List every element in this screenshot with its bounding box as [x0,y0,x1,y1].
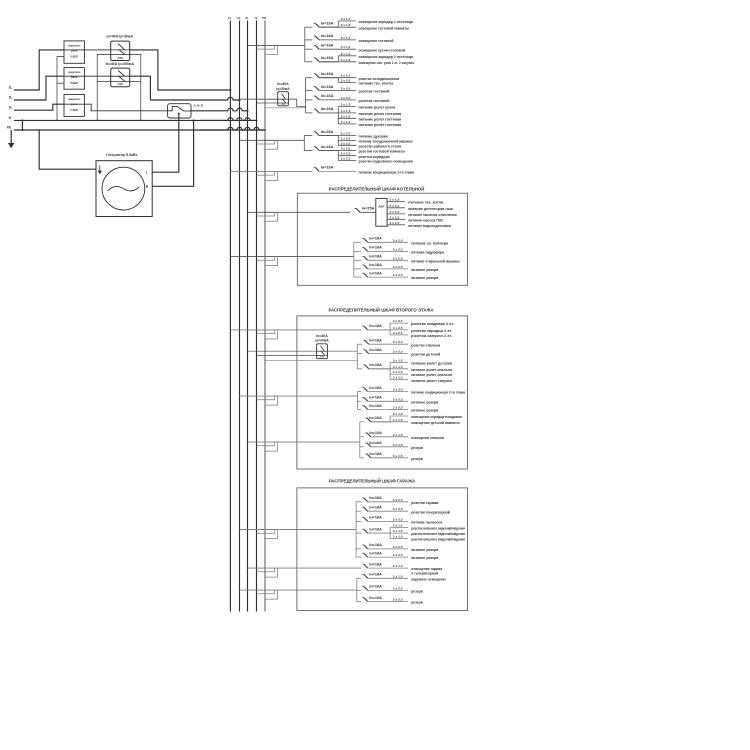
svg-text:Iн=16A: Iн=16A [369,441,382,445]
svg-text:питание ролет санузел: питание ролет санузел [411,379,452,383]
svg-text:освещение гостевой комнаты: освещение гостевой комнаты [359,26,409,30]
group2 RCD output to feeder [288,99,305,106]
svg-text:розетки детской: розетки детской [411,353,441,357]
svg-text:питание кондиционера 2-го этаж: питание кондиционера 2-го этажа [411,391,466,395]
svg-text:3 x 1,5: 3 x 1,5 [393,370,403,374]
breaker QF10 guest room sockets [304,150,312,152]
wire N to bus N [200,118,257,121]
svg-text:3 x 2,5: 3 x 2,5 [393,598,403,602]
surge relay box UZBR phase 3 [64,95,84,117]
svg-text:освещение спальни: освещение спальни [411,436,445,440]
bus N vertical [256,21,258,612]
svg-text:розетки спальни: розетки спальни [411,343,441,347]
svg-text:питание резерв: питание резерв [411,556,439,560]
cab2D feeder vertical [359,422,361,458]
svg-text:Iн=16A: Iн=16A [321,72,334,76]
breaker QF15 washing machine [354,259,361,261]
svg-text:розетки внешнего видеонаблюден: розетки внешнего видеонаблюдения [411,532,465,536]
breaker QF37 reserve [357,589,361,591]
svg-text:1L: 1L [228,16,232,20]
svg-text:3 x 1,5: 3 x 1,5 [393,376,403,380]
cabB feeder vertical [353,242,355,277]
svg-text:3 x 1,5: 3 x 1,5 [393,524,403,528]
group1 tap from bus 3L [248,44,305,46]
svg-text:питание резерв: питание резерв [411,400,439,404]
cab2 feeder vertical [356,344,358,369]
svg-text:Iн=16A: Iн=16A [369,496,382,500]
breaker QF9 oven [304,135,312,137]
wire generator N to bus N line [152,120,193,186]
svg-text:Iн=16A: Iн=16A [321,145,334,149]
bus 3L vertical [247,21,249,612]
svg-text:Генератор 5.5кВт: Генератор 5.5кВт [106,153,137,157]
svg-text:резерв: резерв [411,601,423,605]
neutral drop relay1 relay2 [57,57,64,121]
svg-text:3 x 1,5: 3 x 1,5 [393,443,403,447]
svg-text:питание ролет гостиная: питание ролет гостиная [359,112,402,116]
svg-text:Iн=16A: Iн=16A [369,246,382,250]
svg-text:3 x 1,5: 3 x 1,5 [390,198,400,202]
svg-text:питание детекторов газа: питание детекторов газа [408,207,453,211]
svg-text:3 x 1,5: 3 x 1,5 [341,58,351,62]
svg-text:3 x 2,5: 3 x 2,5 [393,265,403,269]
svg-text:розетки коридор 2 эт.: розетки коридор 2 эт. [411,329,452,333]
svg-text:питание стиральной машины: питание стиральной машины [411,259,460,263]
node N-PE bond [21,120,23,130]
svg-text:питание насоса ГВС: питание насоса ГВС [408,218,443,222]
svg-text:питание ролет гостиная: питание ролет гостиная [359,123,402,127]
svg-text:защитное: защитное [68,44,81,48]
svg-text:Iн=16A: Iн=16A [369,543,382,547]
breaker QF28 reserve [360,457,364,459]
svg-text:3 x 2,5: 3 x 2,5 [393,517,403,521]
svg-text:Iн=25A: Iн=25A [362,206,375,210]
group2 feeder vertical [305,78,307,113]
svg-text:Iн=16A: Iн=16A [369,386,382,390]
wire PE to generator [39,130,96,169]
svg-text:розетки кладовки 2 эт.: розетки кладовки 2 эт. [411,322,454,326]
cab2C feeder vertical [357,392,359,410]
svg-text:Iн=16A: Iн=16A [369,506,382,510]
svg-text:питание резерв: питание резерв [411,268,439,272]
svg-text:Iн=16A: Iн=16A [321,94,334,98]
svg-text:освещение коридор+кладовка: освещение коридор+кладовка [411,415,462,419]
svg-text:питание ролет гостиная: питание ролет гостиная [359,117,402,121]
group1 feeder vertical [304,27,306,62]
transfer switch 1-0-2 [168,104,191,118]
svg-text:3 x 1,5: 3 x 1,5 [393,564,403,568]
svg-text:Iн=16A: Iн=16A [321,34,334,38]
wire 3L incoming [14,104,64,110]
svg-text:розетки санузел 2 эт.: розетки санузел 2 эт. [411,334,452,338]
breaker QF18 storeroom sockets [230,329,361,331]
svg-text:Iн=40A: Iн=40A [277,82,289,86]
breaker QF24 reserve [358,409,362,411]
cab2 RCD N feed [257,354,317,356]
svg-text:Iн=16A: Iн=16A [369,585,382,589]
breaker QF35 garage lighting [248,567,362,569]
svg-text:питание газ. котла: питание газ. котла [408,201,444,205]
breaker QF36 outdoor lighting [357,577,361,579]
svg-text:3 x 1,5: 3 x 1,5 [390,210,400,214]
svg-text:Iу=30мА: Iу=30мА [315,339,329,343]
breaker QF38 reserve [357,601,361,603]
svg-text:Iн=40A: Iн=40A [316,334,328,338]
breaker QF2 lighting living room [305,39,313,41]
svg-text:3 x 2,5: 3 x 2,5 [393,586,403,590]
svg-text:3 x 1,5: 3 x 1,5 [341,23,351,27]
svg-text:3 x 1,5: 3 x 1,5 [393,529,403,533]
svg-text:питание кондиционера 1-го этаж: питание кондиционера 1-го этажа [359,171,415,175]
wire N incoming [14,119,257,121]
svg-text:3 x 1,5: 3 x 1,5 [341,36,351,40]
svg-text:3 x 2,5: 3 x 2,5 [341,87,351,91]
svg-text:3 x 2,5: 3 x 2,5 [393,507,403,511]
svg-text:3 x 2,5: 3 x 2,5 [393,319,403,323]
neutral riser RCD inputs [97,54,111,120]
garage feeder vertical [355,502,357,557]
svg-text:3 x 2,5: 3 x 2,5 [393,397,403,401]
svg-text:Iу=30мА: Iу=30мА [276,87,290,91]
svg-text:розетки подсобного помещения: розетки подсобного помещения [359,160,413,164]
svg-text:3 x 1,5: 3 x 1,5 [390,204,400,208]
svg-text:УЗБР: УЗБР [70,108,78,112]
svg-text:2L: 2L [9,96,13,100]
svg-text:питание водоподготовки: питание водоподготовки [408,224,451,228]
svg-text:питание резерв: питание резерв [411,276,439,280]
surge relay box UZBR phase 1 [64,41,84,63]
svg-text:Iн=16A: Iн=16A [369,452,382,456]
garage lower feeder [240,589,357,591]
svg-text:Iн=16A: Iн=16A [369,551,382,555]
svg-text:PE: PE [7,125,11,129]
svg-text:РАСПРЕДЕЛИТЕЛЬНЫЙ ШКАФ ГАРАЖА: РАСПРЕДЕЛИТЕЛЬНЫЙ ШКАФ ГАРАЖА [329,477,416,484]
svg-text:питание эл. бойлера: питание эл. бойлера [411,241,449,245]
svg-text:АВР: АВР [378,205,384,209]
svg-text:3 x 1,5: 3 x 1,5 [341,103,351,107]
wire relay2 to RCD2 [64,75,111,77]
svg-text:УЗБР: УЗБР [70,55,78,59]
svg-text:3 x 2,5: 3 x 2,5 [341,147,351,151]
svg-text:3 x 1,5: 3 x 1,5 [393,365,403,369]
breaker QF4 lighting corridor 2 [305,61,313,63]
svg-text:питание резерв: питание резерв [411,409,439,413]
svg-text:3 x 1,5: 3 x 1,5 [393,534,403,538]
svg-text:3 x 1,5: 3 x 1,5 [393,433,403,437]
cab2C tap from bus 2L [240,395,358,397]
svg-text:розетки внешнего видеонаблюден: розетки внешнего видеонаблюдения [411,527,465,531]
generator ground terminal [99,165,101,171]
svg-text:3 x 1,5: 3 x 1,5 [341,114,351,118]
svg-text:3 x 2,5: 3 x 2,5 [341,152,351,156]
svg-text:питание резерв: питание резерв [411,548,439,552]
bus PE vertical [264,21,266,612]
breaker QF5 fridge sockets [306,77,313,79]
svg-text:1-0-2: 1-0-2 [194,104,204,108]
breaker QF7 sockets living [306,99,313,101]
svg-text:Iн=16A: Iн=16A [369,416,382,420]
svg-text:Iн=16A: Iн=16A [321,85,334,89]
svg-text:3 x 1,5: 3 x 1,5 [341,17,351,21]
svg-text:розетки гаража: розетки гаража [411,501,439,505]
svg-text:3 x 2,5: 3 x 2,5 [341,157,351,161]
wire RCD1 output to bus 1L [130,50,231,90]
svg-text:Iн=16A: Iн=16A [369,271,382,275]
svg-text:Iн=16A: Iн=16A [321,56,334,60]
breaker QF26 lighting bedroom [360,436,364,438]
svg-text:3 x 2,5: 3 x 2,5 [393,406,403,410]
bus 2L vertical [239,21,241,612]
svg-text:Iн=40A Iу=300мА: Iн=40A Iу=300мА [106,62,135,66]
svg-text:питание ролет спальня: питание ролет спальня [411,373,452,377]
svg-text:Iн=16A: Iн=16A [369,348,382,352]
svg-text:питание пылесоса: питание пылесоса [411,521,443,525]
wire RCD2 output to bus 2L [130,75,151,77]
svg-text:РАСПРЕДЕЛИТЕЛЬНЫЙ ШКАФ ВТОРОГО: РАСПРЕДЕЛИТЕЛЬНЫЙ ШКАФ ВТОРОГО ЭТАЖА [329,305,435,312]
svg-text:освещение детской комнаты: освещение детской комнаты [411,421,460,425]
svg-text:3 x 2,5: 3 x 2,5 [341,79,351,83]
cabB tap from bus 1L [230,256,353,258]
group2 N feed [257,102,278,104]
svg-text:+ генераторной: + генераторной [411,572,439,576]
breaker QF14 hydrophore [354,250,361,252]
svg-text:3 x 2,5: 3 x 2,5 [341,137,351,141]
svg-text:освещение коридор 1 лестница: освещение коридор 1 лестница [359,20,414,24]
svg-text:Iн=16A: Iн=16A [369,339,382,343]
wire PE to bus PE [200,127,265,130]
svg-text:УЗО: УЗО [320,356,325,358]
svg-text:1L: 1L [9,86,13,90]
svg-text:Iн=16A: Iн=16A [369,527,382,531]
breaker QF13 boiler [354,241,361,243]
svg-text:PE: PE [262,16,266,20]
cab2D tap from bus 3L [248,441,360,443]
bus 1L vertical [229,21,231,612]
svg-text:3 x 1,5: 3 x 1,5 [393,454,403,458]
svg-text:3 x 2,5: 3 x 2,5 [393,273,403,277]
svg-text:3 x 1,5: 3 x 1,5 [341,120,351,124]
svg-text:питание насосов отопления: питание насосов отопления [408,213,457,217]
svg-text:освещение гаража: освещение гаража [411,567,443,571]
breaker QF17 reserve [354,276,361,278]
svg-text:Iн=16A: Iн=16A [369,404,382,408]
cab2 RCD PE feed [265,360,357,362]
breaker QF6 sockets living [306,90,313,92]
svg-text:РАСПРЕДЕЛИТЕЛЬНЫЙ ШКАФ КОТЕЛЬН: РАСПРЕДЕЛИТЕЛЬНЫЙ ШКАФ КОТЕЛЬНОЙ [329,184,425,191]
wire relay3 output step [64,104,168,111]
breaker QF25 lighting corridor floor2 [360,421,364,423]
svg-text:Iн=16A: Iн=16A [321,166,334,170]
svg-text:3 x 2,5: 3 x 2,5 [393,331,403,335]
wire PE incoming [14,129,265,131]
svg-text:3 x 2,5: 3 x 2,5 [393,545,403,549]
wire transfer switch to bus 3L [191,108,248,111]
wire generator L to switch [178,114,180,172]
wire 2L incoming [14,76,64,100]
svg-text:розетки гостевой комнаты: розетки гостевой комнаты [359,150,406,154]
svg-text:розетки рабочего стола: розетки рабочего стола [359,144,403,148]
svg-text:питание гидрофора: питание гидрофора [411,251,445,255]
wire relay1 to RCD1 [64,49,111,51]
svg-text:Iн=16A: Iн=16A [321,107,334,111]
svg-text:УЗО: УЗО [117,82,122,86]
svg-text:3 x 1,5: 3 x 1,5 [393,574,403,578]
ground electrode symbol [10,130,12,144]
breaker QF21 roller shutters floor2 [357,368,362,370]
svg-text:3 x 2,5: 3 x 2,5 [393,326,403,330]
cabinet second floor box [297,316,468,469]
svg-text:3 x 1,5: 3 x 1,5 [393,359,403,363]
breaker QF22 air conditioner floor2 [358,391,362,393]
AVR box [376,199,387,227]
breaker QF29 garage sockets [356,501,361,503]
breaker QF33 reserve [356,548,361,550]
svg-text:3 x 1,5: 3 x 1,5 [341,45,351,49]
svg-text:3 x 2,5: 3 x 2,5 [341,74,351,78]
breaker QF20 nursery sockets [357,353,362,355]
svg-text:Iн=10A: Iн=10A [369,596,382,600]
breaker QF1 lighting corridor [305,26,313,28]
svg-text:питание ролет спальня: питание ролет спальня [411,368,452,372]
svg-text:питание газ. плиты: питание газ. плиты [359,82,394,86]
garage tap from bus 2L [240,529,357,531]
svg-text:Iн=16A: Iн=16A [321,22,334,26]
cabinet garage box [297,488,468,611]
cab2 RCD feed from bus 3L [248,350,317,352]
svg-text:3 x 1,5: 3 x 1,5 [341,109,351,113]
svg-text:наружное освещение: наружное освещение [411,577,446,581]
breaker QF12 AVR input [356,208,360,212]
svg-text:резерв: резерв [411,457,423,461]
svg-text:Iн=16A: Iн=16A [369,237,382,241]
svg-text:Iн=25A: Iн=25A [321,130,334,134]
neutral drop RCD outputs [130,54,141,120]
svg-text:резерв: резерв [411,590,423,594]
svg-text:питание ролет кухня: питание ролет кухня [359,106,396,110]
breaker QF23 reserve [358,400,362,402]
svg-text:3 x 2,5: 3 x 2,5 [393,340,403,344]
group2 feed from bus 2L [240,98,278,100]
svg-text:3 x 2,5: 3 x 2,5 [341,132,351,136]
svg-text:освещение кухни-столовой: освещение кухни-столовой [359,48,406,52]
svg-text:питание посудомоечной машины: питание посудомоечной машины [359,140,413,144]
svg-text:освещение гостиной: освещение гостиной [359,39,395,43]
svg-text:3 x 1,5: 3 x 1,5 [393,412,403,416]
svg-text:3 x 2,5: 3 x 2,5 [393,256,403,260]
AVR outputs [387,201,405,203]
svg-text:защитное: защитное [68,70,81,74]
svg-text:питание духовки: питание духовки [359,135,389,139]
svg-text:3 x 1,5: 3 x 1,5 [393,418,403,422]
svg-text:розетки гостиной: розетки гостиной [359,99,391,103]
svg-text:Iн=10A: Iн=10A [369,431,382,435]
svg-text:УЗБР: УЗБР [70,81,78,85]
svg-text:Iн=16A: Iн=16A [369,396,382,400]
svg-text:3L: 3L [9,105,13,109]
svg-text:Iн=16A: Iн=16A [321,44,334,48]
cabinet boiler room box [297,193,467,285]
cabA tap from bus 3L [248,211,351,213]
svg-text:розетки гостиной: розетки гостиной [359,90,391,94]
svg-text:3 x 2,5: 3 x 2,5 [393,350,403,354]
svg-text:3 x 1,5: 3 x 1,5 [390,221,400,225]
svg-text:Iн=16A: Iн=16A [369,324,382,328]
svg-text:2L: 2L [237,16,241,20]
svg-text:питание ролет детская: питание ролет детская [411,362,452,366]
svg-text:3L: 3L [245,16,249,20]
breaker QF34 reserve [356,556,361,558]
breaker QF27 reserve [360,446,364,448]
svg-text:Iн=16A: Iн=16A [369,255,382,259]
svg-text:резерв: резерв [411,446,423,450]
breaker QF30 generator room sockets [356,510,361,512]
svg-text:3 x 2,5: 3 x 2,5 [393,388,403,392]
svg-text:Iн=16A: Iн=16A [369,263,382,267]
breaker QF16 reserve [354,268,361,270]
group3 feeder vertical [303,136,305,151]
svg-text:3 x 1,5: 3 x 1,5 [390,215,400,219]
svg-text:Iн=16A: Iн=16A [369,363,382,367]
svg-text:Iн=16A: Iн=16A [369,562,382,566]
svg-text:розетки холодильников: розетки холодильников [359,77,400,81]
svg-text:Iн=40A Iу=30мА: Iн=40A Iу=30мА [107,35,134,39]
svg-text:реле: реле [71,49,78,53]
svg-text:розетки коридора: розетки коридора [359,155,391,159]
svg-text:розетки генераторной: розетки генераторной [411,510,450,514]
svg-text:УЗО: УЗО [117,56,122,60]
svg-text:освещение сан. узла 1 эт. 2 са: освещение сан. узла 1 эт. 2 санузла [359,61,415,65]
svg-text:3 x 2,5: 3 x 2,5 [341,141,351,145]
svg-text:3 x 2,5: 3 x 2,5 [393,247,403,251]
breaker QF11 air conditioner floor1 [230,170,312,172]
svg-text:освещение коридор 2 лестница: освещение коридор 2 лестница [359,55,414,59]
svg-text:3 x 1,5: 3 x 1,5 [341,52,351,56]
breaker QF3 lighting kitchen [305,48,313,50]
breaker QF19 bedroom sockets [357,343,362,345]
svg-text:3 x 2,5: 3 x 2,5 [341,96,351,100]
svg-text:Iн=16A: Iн=16A [369,573,382,577]
group2 PE feed [265,107,306,109]
breaker QF32 outdoor cctv sockets [356,532,361,534]
svg-text:3 x 2,5: 3 x 2,5 [393,553,403,557]
surge relay box UZBR phase 2 [64,68,84,90]
cab2 RCD output to feeder [327,350,357,352]
svg-text:3 x 2,5: 3 x 2,5 [393,238,403,242]
breaker QF8 roller shutters [306,112,313,114]
svg-text:3 x 2,5: 3 x 2,5 [393,498,403,502]
svg-text:L: L [146,171,148,175]
svg-text:УЗО: УЗО [281,104,286,106]
svg-text:розетки внешнего видеонаблюден: розетки внешнего видеонаблюдения [411,538,465,542]
svg-text:Iн=16A: Iн=16A [369,516,382,520]
group3 tap from bus 2L [240,139,305,141]
breaker QF31 vacuum supply [356,520,361,522]
svg-text:защитное: защитное [68,97,81,101]
wire 1L incoming [14,50,64,90]
svg-text:N: N [255,16,257,20]
